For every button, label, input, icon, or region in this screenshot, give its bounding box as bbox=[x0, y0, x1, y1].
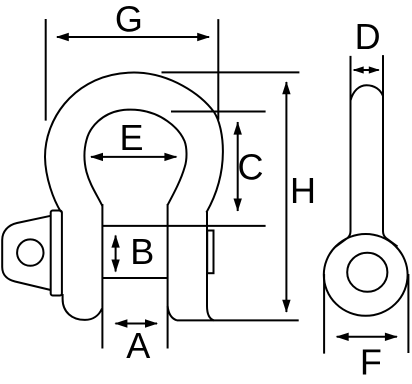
dimension D arrow bbox=[354, 69, 379, 71]
left leg inner edge / A extension line bbox=[101, 204, 103, 349]
svg-text:G: G bbox=[115, 0, 143, 40]
pin head flange bbox=[51, 211, 62, 296]
dimension F arrow bbox=[337, 336, 397, 338]
right leg outer edge bbox=[206, 212, 208, 306]
dimension H arrow bbox=[285, 82, 287, 312]
F right extension line bbox=[407, 274, 409, 353]
svg-text:C: C bbox=[238, 147, 264, 188]
side view eye hole bbox=[347, 253, 387, 292]
dimension A arrow bbox=[115, 323, 157, 325]
svg-text:E: E bbox=[119, 117, 143, 158]
svg-text:H: H bbox=[290, 170, 316, 211]
right leg bottom inner fillet bbox=[168, 306, 177, 320]
dimension C arrow bbox=[237, 122, 239, 211]
svg-text:D: D bbox=[355, 16, 381, 57]
side view shaft-to-eye right flare bbox=[383, 231, 398, 247]
dimension G arrow bbox=[57, 36, 209, 38]
right leg bottom outer corner bbox=[207, 306, 214, 320]
side view pin shaft left edge / D extension line bbox=[350, 56, 352, 232]
G right extension line bbox=[217, 19, 219, 120]
pin head rounded body bbox=[2, 216, 51, 290]
pin head hole bbox=[17, 239, 43, 265]
pin threaded end stub bbox=[207, 231, 213, 274]
left leg bottom curve bbox=[63, 294, 102, 320]
pin bottom edge bbox=[102, 277, 167, 279]
F left extension line bbox=[323, 274, 325, 354]
svg-text:F: F bbox=[360, 342, 382, 383]
right leg inner edge / A extension line bbox=[167, 204, 169, 349]
C top extension line bbox=[171, 111, 266, 113]
shackle bow inner opening bbox=[84, 110, 186, 206]
G left extension line bbox=[45, 19, 47, 121]
side view shaft-to-eye left flare bbox=[336, 231, 351, 247]
dimension B arrow bbox=[115, 236, 117, 272]
pin top edge / C bottom extension line bbox=[102, 225, 265, 227]
shackle bow outer outline bbox=[45, 73, 223, 213]
right leg bottom line / H bottom extension line bbox=[177, 319, 299, 321]
dimension E arrow bbox=[91, 156, 176, 158]
side view pin shaft right edge / D extension line bbox=[382, 55, 384, 231]
svg-text:B: B bbox=[130, 231, 154, 272]
side view eye outer circle bbox=[324, 234, 408, 316]
H top extension line bbox=[162, 71, 300, 73]
svg-text:A: A bbox=[126, 325, 150, 366]
side view pin head dome bbox=[351, 85, 384, 100]
